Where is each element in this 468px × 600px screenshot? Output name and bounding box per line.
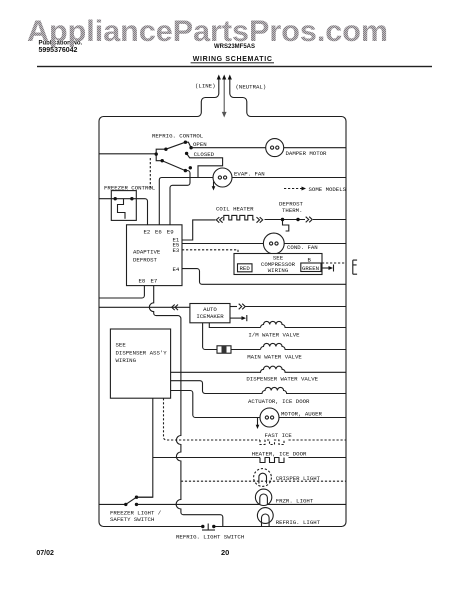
svg-text:REFRIG. LIGHT SWITCH: REFRIG. LIGHT SWITCH [176,534,244,541]
svg-text:THERM.: THERM. [282,207,302,214]
svg-text:AUTO: AUTO [203,306,217,313]
svg-text:E8: E8 [139,277,146,284]
svg-text:GREEN: GREEN [302,265,319,272]
svg-text:MOTOR, AUGER: MOTOR, AUGER [281,411,323,418]
svg-text:OPEN: OPEN [193,141,207,148]
svg-text:E2: E2 [144,228,151,235]
svg-text:DEFROST: DEFROST [133,257,157,264]
svg-text:DISPENSER WATER VALVE: DISPENSER WATER VALVE [246,376,318,383]
svg-text:E3: E3 [173,247,180,254]
svg-text:CRISPER LIGHT: CRISPER LIGHT [276,475,321,482]
svg-text:E7: E7 [151,277,158,284]
svg-text:COIL HEATER: COIL HEATER [216,206,254,213]
svg-text:REFRIG. CONTROL: REFRIG. CONTROL [152,133,204,140]
svg-text:07/02: 07/02 [36,550,54,557]
svg-text:FRZR. LIGHT: FRZR. LIGHT [276,498,314,505]
svg-text:AppliancePartsPros.com: AppliancePartsPros.com [27,15,388,48]
svg-text:WIRING: WIRING [116,357,137,364]
svg-text:ADAPTIVE: ADAPTIVE [133,248,161,255]
svg-text:REFRIG. LIGHT: REFRIG. LIGHT [276,519,321,526]
svg-text:(LINE): (LINE) [195,83,215,90]
svg-text:WIRING SCHEMATIC: WIRING SCHEMATIC [193,56,272,63]
svg-text:WIRING: WIRING [268,267,289,274]
svg-text:5995376042: 5995376042 [39,47,78,54]
svg-text:SEE: SEE [116,342,127,349]
svg-text:I/M WATER VALVE: I/M WATER VALVE [248,332,300,339]
svg-text:E9: E9 [167,228,174,235]
svg-text:EVAP. FAN: EVAP. FAN [234,171,265,178]
svg-text:E6: E6 [155,228,162,235]
svg-text:COND. FAN: COND. FAN [287,244,318,251]
svg-text:FAST ICE: FAST ICE [265,432,293,439]
svg-text:20: 20 [221,548,229,557]
svg-text:E4: E4 [173,266,180,273]
svg-text:(NEUTRAL): (NEUTRAL) [236,84,267,91]
svg-text:ACTUATOR, ICE DOOR: ACTUATOR, ICE DOOR [248,398,310,405]
svg-text:SOME MODELS: SOME MODELS [309,186,347,193]
svg-text:DAMPER MOTOR: DAMPER MOTOR [286,150,328,157]
svg-text:RED: RED [240,265,251,272]
svg-text:DISPENSER ASS'Y: DISPENSER ASS'Y [116,350,168,357]
svg-text:MAIN WATER VALVE: MAIN WATER VALVE [247,354,302,361]
svg-text:HEATER, ICE DOOR: HEATER, ICE DOOR [252,451,307,458]
svg-text:ICEMAKER: ICEMAKER [196,313,224,320]
svg-text:SAFETY SWITCH: SAFETY SWITCH [110,516,154,523]
svg-text:CLOSED: CLOSED [194,151,215,158]
